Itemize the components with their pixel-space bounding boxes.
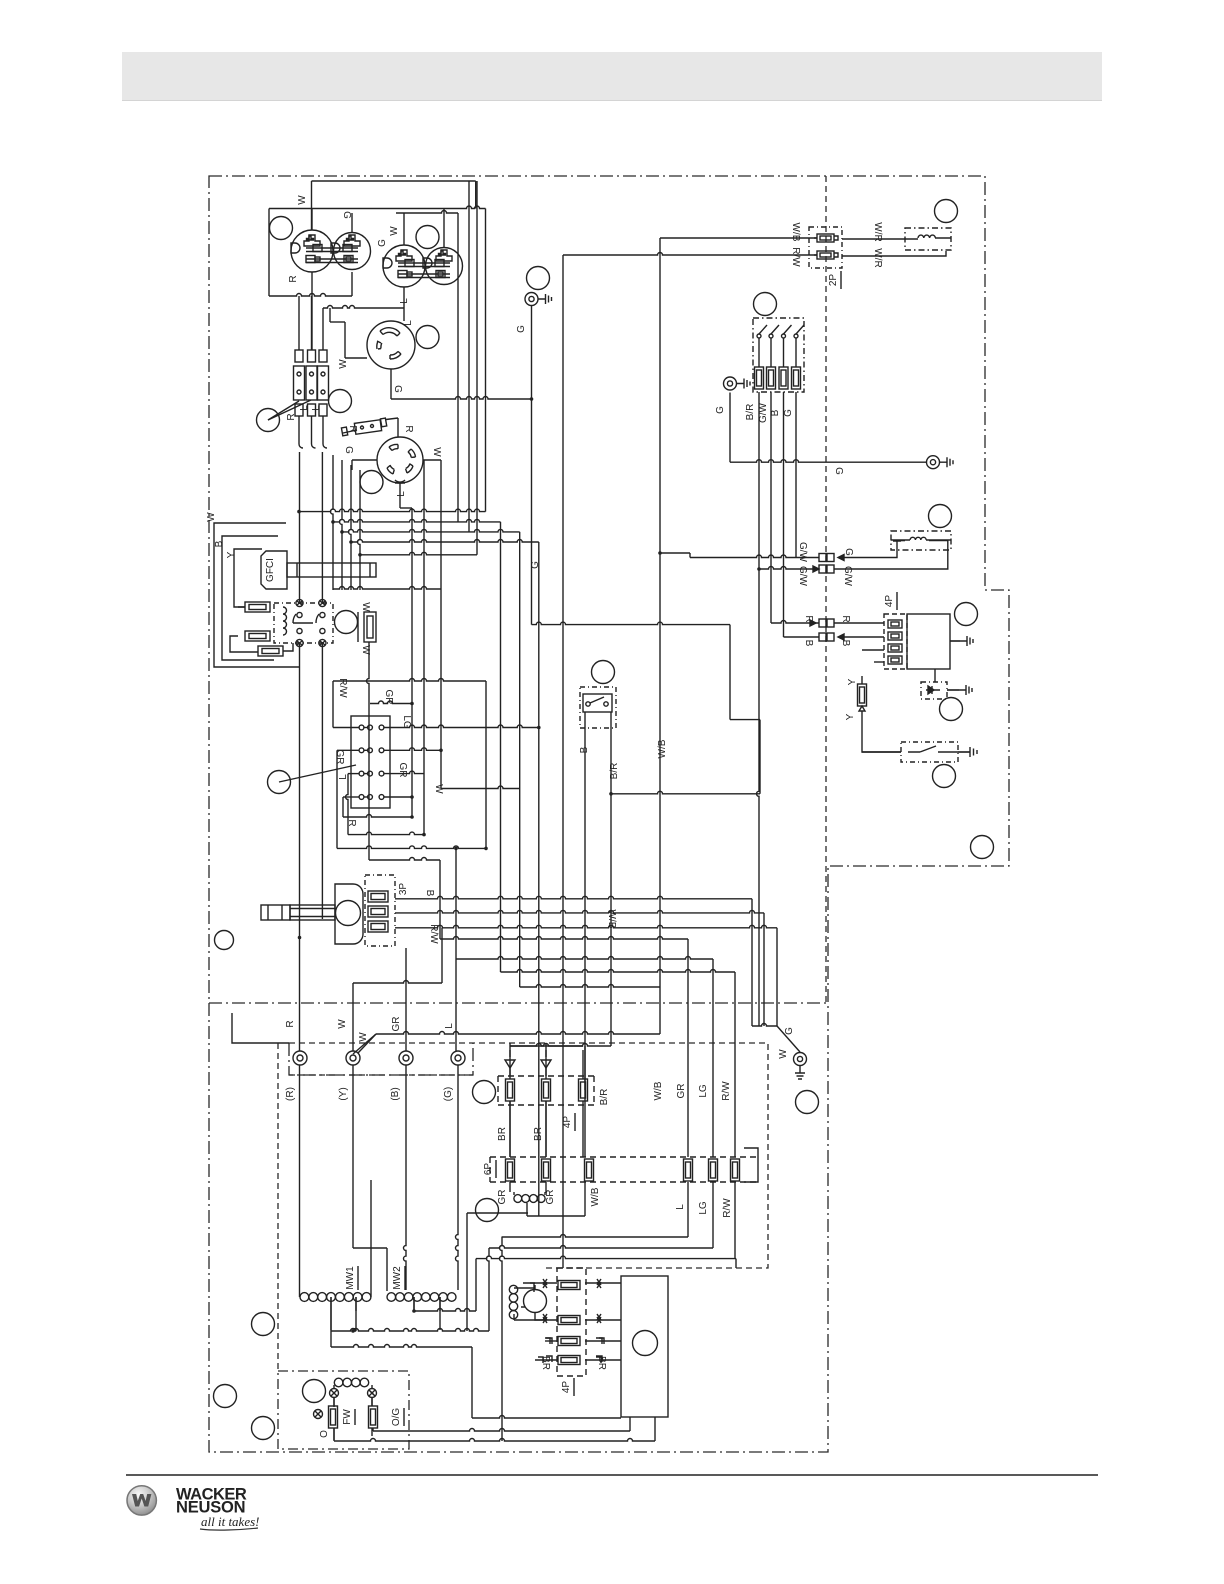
svg-text:R: R — [403, 425, 414, 432]
svg-text:W: W — [433, 784, 444, 794]
svg-text:W/B: W/B — [653, 1081, 664, 1100]
svg-text:R/W: R/W — [337, 678, 348, 698]
svg-text:W: W — [297, 195, 308, 205]
svg-text:G: G — [784, 1027, 795, 1035]
svg-text:B/R: B/R — [745, 404, 756, 421]
svg-text:B: B — [770, 409, 781, 416]
svg-text:O/G: O/G — [391, 1408, 402, 1427]
svg-text:W/B: W/B — [790, 223, 801, 242]
svg-text:(Y): (Y) — [338, 1087, 349, 1100]
svg-text:L: L — [675, 1204, 686, 1210]
svg-text:W: W — [389, 226, 400, 236]
svg-text:G/W: G/W — [842, 566, 853, 587]
svg-text:L: L — [299, 405, 310, 411]
svg-text:BR: BR — [533, 1127, 544, 1141]
svg-text:W/R: W/R — [872, 222, 883, 241]
svg-text:G: G — [377, 239, 388, 247]
svg-text:R: R — [347, 425, 358, 432]
svg-text:GR: GR — [397, 763, 408, 778]
svg-text:G: G — [341, 211, 352, 219]
svg-text:B/R: B/R — [599, 1089, 610, 1106]
svg-text:G/W: G/W — [797, 542, 808, 563]
svg-text:O: O — [319, 1430, 330, 1438]
svg-text:W/R: W/R — [872, 248, 883, 267]
svg-text:4P: 4P — [884, 595, 895, 608]
svg-text:GR: GR — [334, 750, 345, 765]
svg-text:R: R — [803, 615, 814, 622]
svg-text:(G): (G) — [443, 1087, 454, 1101]
svg-text:W: W — [337, 1019, 348, 1029]
svg-text:B: B — [424, 890, 435, 897]
svg-text:R/W: R/W — [722, 1198, 733, 1218]
svg-text:(R): (R) — [285, 1087, 296, 1101]
svg-text:L: L — [311, 405, 322, 411]
svg-text:W: W — [360, 602, 371, 612]
svg-text:G: G — [715, 406, 726, 414]
svg-text:BR: BR — [596, 1356, 607, 1370]
svg-text:LG: LG — [698, 1201, 709, 1215]
svg-text:R/W: R/W — [428, 924, 439, 944]
svg-text:FW: FW — [342, 1409, 353, 1425]
svg-text:L: L — [444, 1023, 455, 1029]
svg-text:G: G — [392, 385, 403, 393]
svg-text:L: L — [396, 491, 407, 497]
svg-text:R/W: R/W — [790, 247, 801, 267]
svg-text:(B): (B) — [390, 1087, 401, 1100]
svg-text:Y: Y — [226, 551, 237, 558]
svg-text:W/B: W/B — [590, 1187, 601, 1206]
svg-text:GFCI: GFCI — [265, 558, 276, 582]
svg-text:B: B — [803, 640, 814, 647]
svg-text:R: R — [286, 413, 297, 420]
svg-text:GR: GR — [497, 1190, 508, 1205]
svg-text:4P: 4P — [561, 1381, 572, 1394]
svg-text:B: B — [214, 540, 225, 547]
svg-text:B: B — [840, 640, 851, 647]
svg-text:R: R — [288, 275, 299, 282]
svg-text:6P: 6P — [483, 1163, 494, 1176]
svg-text:G: G — [843, 548, 854, 556]
svg-text:GR: GR — [676, 1084, 687, 1099]
svg-text:G: G — [530, 561, 541, 569]
svg-text:W: W — [358, 1032, 369, 1042]
svg-text:BR: BR — [540, 1356, 551, 1370]
svg-text:W: W — [206, 512, 217, 522]
svg-text:W: W — [360, 645, 371, 655]
svg-text:R: R — [285, 1020, 296, 1027]
svg-text:Y: Y — [845, 713, 856, 720]
svg-text:L: L — [403, 320, 414, 326]
svg-text:GR: GR — [383, 690, 394, 705]
svg-text:MW2: MW2 — [392, 1266, 403, 1290]
svg-text:GR: GR — [545, 1190, 556, 1205]
svg-text:W: W — [338, 359, 349, 369]
svg-text:L: L — [399, 298, 410, 304]
svg-text:all it takes!: all it takes! — [201, 1514, 260, 1529]
svg-text:GR: GR — [391, 1017, 402, 1032]
svg-text:4P: 4P — [562, 1116, 573, 1129]
svg-text:G: G — [343, 446, 354, 454]
svg-text:G: G — [783, 409, 794, 417]
svg-text:W/B: W/B — [606, 910, 617, 929]
svg-text:BR: BR — [497, 1127, 508, 1141]
svg-text:LG: LG — [401, 715, 412, 729]
svg-text:W: W — [778, 1049, 789, 1059]
svg-text:L: L — [338, 774, 349, 780]
svg-text:3P: 3P — [398, 883, 409, 896]
svg-text:LG: LG — [698, 1084, 709, 1098]
svg-text:G/W: G/W — [797, 566, 808, 587]
svg-text:MW1: MW1 — [345, 1266, 356, 1290]
svg-text:G: G — [516, 325, 527, 333]
svg-text:2P: 2P — [828, 274, 839, 287]
svg-text:G: G — [833, 467, 844, 475]
svg-text:B: B — [579, 746, 590, 753]
svg-text:W/B: W/B — [657, 739, 668, 758]
svg-text:G/W: G/W — [758, 402, 769, 423]
svg-text:R: R — [840, 615, 851, 622]
svg-text:R: R — [346, 819, 357, 826]
svg-text:W: W — [431, 447, 442, 457]
svg-text:B/R: B/R — [609, 763, 620, 780]
svg-text:Y: Y — [847, 678, 858, 685]
svg-text:R/W: R/W — [721, 1081, 732, 1101]
